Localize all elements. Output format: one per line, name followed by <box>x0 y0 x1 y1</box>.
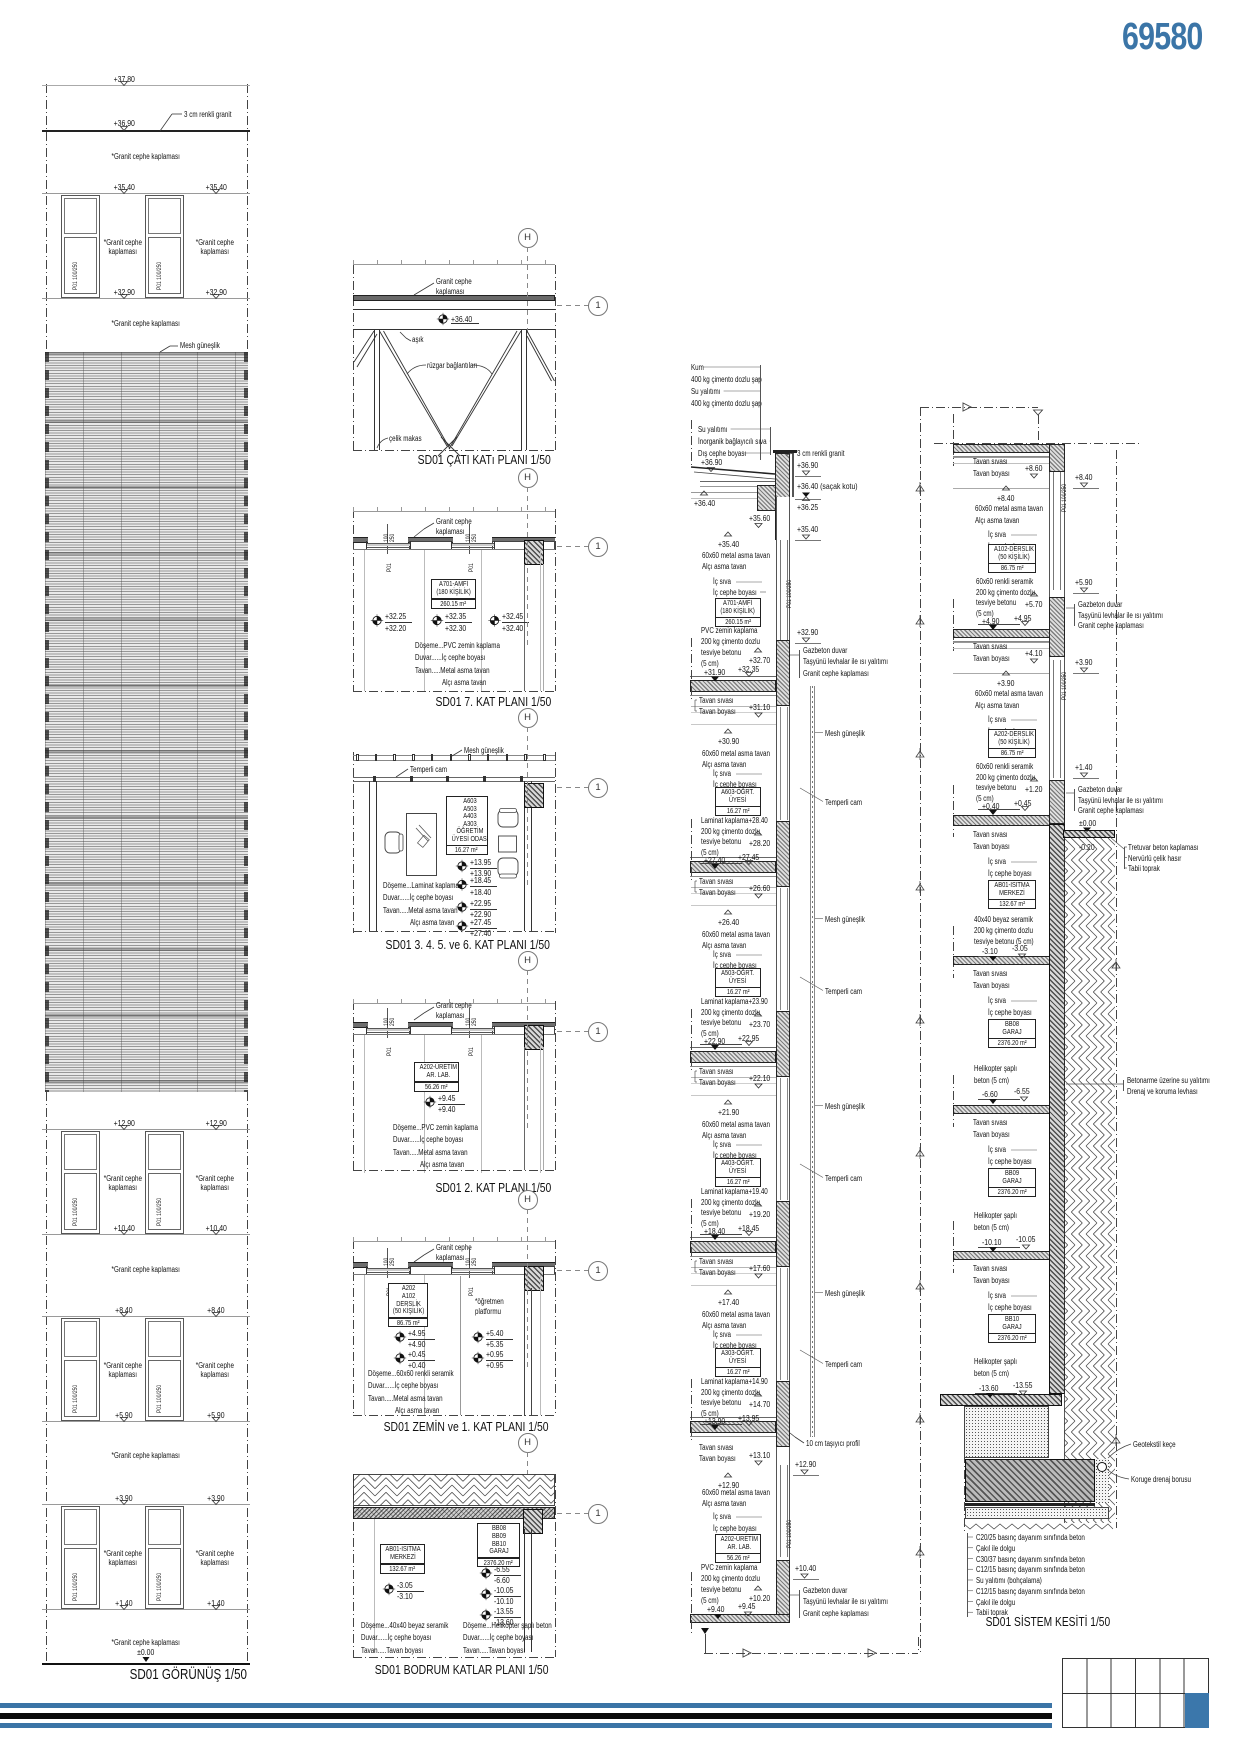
drain gravel stipple <box>1095 1459 1109 1503</box>
window P01 100/250 (elevation) <box>61 195 100 298</box>
spot elevation symbol <box>480 1609 492 1621</box>
elevation level line +10.40 <box>42 1234 250 1235</box>
window P01 100/250 (elevation) <box>145 195 184 298</box>
room label box AB01-ISITMA <box>988 880 1036 900</box>
parapet block hatched <box>775 453 790 540</box>
granite cap on parapet <box>773 450 797 453</box>
plan exterior wall with granite strips <box>353 1022 368 1028</box>
parapet granite cap line +36.90 <box>42 130 250 132</box>
window glazing in plan <box>366 542 410 545</box>
window glazing in plan <box>366 1027 410 1030</box>
spot level +0.95/+0.95 <box>486 1349 508 1359</box>
spot elevation symbol <box>456 920 468 932</box>
benchmark marker <box>916 482 924 494</box>
top bracket with arrow <box>920 407 1038 408</box>
structural column (hatched) <box>524 1025 544 1050</box>
finish notes <box>383 881 478 890</box>
foundation layer list <box>976 1533 1112 1542</box>
room label box A202 <box>388 1283 428 1318</box>
column edge lines <box>523 1047 526 1170</box>
basement wall (hatched continuous) <box>1049 824 1065 1394</box>
gazbeton labels right bottom <box>803 1586 858 1595</box>
right boundary of wall section <box>920 407 921 1653</box>
granite cladding note between windows <box>93 1549 153 1558</box>
spot level +27.45/+27.40 <box>470 917 497 927</box>
elevation left boundary line <box>46 84 47 1664</box>
spot elevation symbol <box>394 1352 406 1364</box>
sidewalk hatched strip <box>1063 830 1115 838</box>
room label box BB08 <box>477 1523 520 1558</box>
spot elevation symbol <box>431 614 443 626</box>
structural column (hatched) <box>524 540 544 565</box>
spot elevation symbol <box>472 1352 484 1364</box>
right ground labels <box>1128 843 1216 852</box>
plan boundary lines <box>353 752 354 933</box>
parapet finish labels <box>698 425 735 434</box>
system section module at 629 <box>953 641 1049 644</box>
interior finish labels <box>713 577 736 586</box>
system section module at 444 <box>953 456 1049 459</box>
window P01 100/250 (elevation) <box>61 1318 100 1421</box>
granite cladding note <box>0 152 296 161</box>
granite cladding note between windows <box>93 238 153 247</box>
mesh/glass labels right side <box>825 729 875 738</box>
foundation big block hatched <box>965 1459 1095 1502</box>
steel truss verticals <box>374 330 375 450</box>
benchmark marker <box>916 1413 924 1425</box>
bottom floor module (A202) <box>699 1443 742 1452</box>
label ruzgar baglantilari <box>427 361 490 370</box>
bottom slab of wall section <box>690 1614 790 1623</box>
benchmark marker <box>916 1280 924 1292</box>
benchmark marker <box>916 748 924 760</box>
plan title SD01 2. KAT PLANI 1/50 <box>313 1180 673 1195</box>
gazbeton labels right <box>803 646 858 655</box>
elevation ground line <box>42 1663 250 1665</box>
floor slabs (system section) <box>953 444 1050 453</box>
section floor module at slab 1241 <box>691 1266 776 1269</box>
left level +36.40 <box>694 498 721 508</box>
beam at +35.60 <box>757 485 776 511</box>
plan bottom boundary <box>353 1170 555 1171</box>
room label box A701-AMFİ <box>715 598 761 618</box>
room label box A202-ÜRETİM <box>414 1062 459 1082</box>
basement module at 1105 <box>973 1118 1016 1127</box>
label 10 cm tasiyici profil <box>806 1439 873 1448</box>
benchmark marker <box>1112 1434 1120 1446</box>
reference bubble 1 <box>588 296 608 316</box>
soil level -0.20 <box>1079 842 1099 852</box>
spot elevation symbol <box>394 1331 406 1343</box>
plan title SD01 ZEMİN ve 1. KAT PLANI 1/50 <box>286 1419 646 1434</box>
tempered glass line <box>353 776 555 779</box>
mesh darker bands <box>45 352 248 355</box>
dimension marks 100/250 with P01 <box>386 1248 389 1278</box>
finish notes <box>368 1369 475 1378</box>
plan bottom boundary <box>353 931 555 932</box>
label asik <box>412 335 426 344</box>
reference bubble H <box>518 1433 538 1453</box>
mesh edge dashes <box>45 352 49 1092</box>
footer bars blue black blue <box>0 1703 1052 1708</box>
benchmark marker <box>1112 959 1120 971</box>
window P01 100/250 (elevation) <box>145 1131 184 1234</box>
room label box A202-ÜRETİM <box>715 1534 761 1554</box>
right label 3 cm renkli granit <box>797 449 856 458</box>
footer grid blue cell <box>1185 1693 1210 1729</box>
left boundary marks <box>953 414 954 466</box>
window P01 system section floor1 <box>1061 484 1068 512</box>
right level +32.90 <box>797 627 824 637</box>
spot level +13.95/+13.90 <box>470 857 497 867</box>
elevation right boundary line <box>247 84 248 1664</box>
spot elevation symbol <box>456 901 468 913</box>
wall strip system section above ground <box>1049 444 1065 824</box>
plan title SD01 3. 4. 5. ve 6. KAT PLANI 1/50 <box>288 937 648 952</box>
finish notes <box>393 1123 499 1132</box>
mesh sunscreen leader <box>180 341 230 350</box>
elevation level line +37.80 <box>42 85 250 86</box>
window glazing in plan <box>366 1267 410 1270</box>
interior walls below <box>524 1529 525 1652</box>
room label box BB09 <box>988 1168 1036 1188</box>
gazbeton labels <box>1078 785 1133 794</box>
leader granit cephe kaplamasi <box>436 1001 481 1010</box>
finish notes <box>415 641 521 650</box>
spot elevation symbol <box>383 1583 395 1595</box>
ceiling labels <box>702 551 787 560</box>
spot elevation symbol <box>424 1096 436 1108</box>
window P01 100/250 (elevation) <box>61 1131 100 1234</box>
benchmark marker <box>916 1147 924 1159</box>
reference bubble H <box>518 468 538 488</box>
wall strip (section) <box>776 497 790 1617</box>
foundation lean concrete lower <box>965 1507 1109 1519</box>
structural column (hatched) <box>524 783 544 808</box>
roof slab sloped lines <box>700 480 775 483</box>
dimension marks 100/250 with P01 <box>386 1008 389 1038</box>
desk (plan furniture) <box>406 813 437 876</box>
spot level +32.35/+32.30 <box>445 611 472 621</box>
facade top tick strip <box>353 1240 555 1243</box>
label celik makas <box>389 434 430 443</box>
spot level -10.05/-10.10 <box>494 1585 518 1595</box>
wall inner face line <box>353 548 555 551</box>
window P01 100/250 (elevation) <box>145 1506 184 1609</box>
plan exterior wall with granite strips <box>353 1262 368 1268</box>
room label box A503-ÖĞRT. <box>715 968 761 988</box>
reference bubble 1 <box>588 778 608 798</box>
level +35.60 <box>749 513 776 523</box>
level +36.40 with spot <box>451 314 478 324</box>
bottom foundation slab <box>940 1394 1062 1406</box>
bottom bracket of wall section <box>704 1634 707 1653</box>
finish notes <box>463 1621 574 1630</box>
granite cladding note <box>0 1638 296 1647</box>
room label box AB01-ISITMA <box>380 1544 425 1564</box>
roof build-up labels <box>691 363 707 372</box>
levels +31.90 +32.35 <box>704 667 731 677</box>
reference bubble 1 <box>588 1504 608 1524</box>
benchmark marker <box>916 1546 924 1558</box>
footer grid table <box>1062 1658 1209 1728</box>
leader granit cephe kaplamasi <box>436 1243 481 1252</box>
basement module at 1251 <box>973 1264 1016 1273</box>
room label box BB08 <box>988 1019 1036 1039</box>
foundation: lean concrete stipple upper <box>964 1406 1049 1458</box>
right level +36.25 <box>797 502 824 512</box>
leader 3 cm renkli granit <box>184 110 243 119</box>
room label box A303-ÖĞRT. <box>715 1348 761 1368</box>
facade top tick strip <box>353 510 555 513</box>
soil herringbone (system section) <box>1064 838 1115 1523</box>
granite cladding note <box>0 1451 296 1460</box>
interior projection lines <box>363 1275 366 1415</box>
spot elevation symbol <box>472 1331 484 1343</box>
platform divider line <box>459 1276 462 1415</box>
elevation level line +1.40 <box>42 1609 250 1610</box>
floor slabs hatched (section) <box>690 680 776 692</box>
top boundary <box>934 443 1141 444</box>
label temperli cam <box>410 765 456 774</box>
title SD01 SISTEM KESITI 1/50 <box>898 1614 1198 1629</box>
ground level +-0.00 <box>1079 818 1100 828</box>
reference bubble H <box>518 1190 538 1210</box>
spot elevation symbol <box>480 1567 492 1579</box>
room label box A603 <box>446 796 488 846</box>
mesh screen line (section) <box>809 686 812 1437</box>
elevation level line +12.90 <box>42 1129 250 1130</box>
elevation level line +3.90 <box>42 1504 250 1505</box>
structural column (hatched) <box>524 1266 544 1291</box>
mesh sunscreen strip in plan <box>353 754 555 757</box>
left level +35.40 <box>718 539 745 549</box>
reference bubble H <box>518 951 538 971</box>
granite roof strip <box>353 295 555 301</box>
plan title SD01 ÇATI KATı PLANI 1/50 <box>304 452 664 467</box>
truss bottom boundary <box>353 450 555 451</box>
spot level +32.45/+32.40 <box>502 611 529 621</box>
spot elevation symbol <box>456 860 468 872</box>
spot elevation symbol <box>437 313 449 325</box>
granite face strip right of parapet <box>792 453 794 497</box>
foundation waterproof line <box>965 1503 1095 1506</box>
spot level +5.40/+5.35 <box>486 1328 508 1338</box>
structural column (hatched) <box>523 1509 543 1534</box>
section floor module at slab 680 <box>691 705 776 708</box>
room label box A701-AMFİ <box>431 579 476 599</box>
foundation left boundary <box>964 1406 965 1531</box>
label mesh guneslik <box>464 746 514 755</box>
room label box A403-ÖĞRT. <box>715 1158 761 1178</box>
leader granit cephe kaplamasi <box>436 517 481 526</box>
wall below column block <box>524 1288 525 1416</box>
left level +36.90 <box>701 457 728 467</box>
mesh sunscreen hatched area <box>45 352 248 1092</box>
plan bottom boundary <box>353 1657 555 1658</box>
reference bubble 1 <box>588 1261 608 1281</box>
spot elevation symbol <box>371 614 383 626</box>
spot level +4.95/+4.90 <box>408 1328 430 1338</box>
finish notes <box>361 1621 470 1630</box>
title SD01 GORUNUS 1/50 <box>38 1667 338 1684</box>
granite cladding note <box>0 1265 296 1274</box>
elevation level line +32.90 <box>42 298 250 299</box>
granite cladding note between windows <box>93 1174 153 1183</box>
leader granit cephe kaplamasi <box>436 277 481 286</box>
plan title SD01 BODRUM KATLAR PLANI 1/50 <box>282 1662 642 1677</box>
reference bubble 1 <box>588 537 608 557</box>
spot level -13.55/-13.60 <box>494 1606 518 1616</box>
right labels betonarme su yalitimi <box>1127 1076 1231 1085</box>
dimension marks 100/250 with P01 <box>386 524 389 554</box>
ground slab <box>953 815 1050 826</box>
level +32.70 <box>749 655 776 665</box>
window P01 system section floor2 <box>1061 672 1068 700</box>
right level +36.90 <box>797 460 824 470</box>
window P01 in wall top floor <box>786 580 793 608</box>
right level +35.40 <box>797 524 824 534</box>
room label box A603-ÖĞRT. <box>715 787 761 807</box>
gazbeton labels <box>1078 600 1133 609</box>
right boundary <box>1116 450 1117 1528</box>
benchmark marker <box>916 1014 924 1026</box>
section floor module at slab 861 <box>691 886 776 889</box>
plan boundary lines <box>353 1240 354 1415</box>
elevation level line +8.40 <box>42 1316 250 1317</box>
ground level +-0.00 <box>0 1647 296 1657</box>
basement module at 815 <box>973 830 1016 839</box>
section floor module at slab 1051 <box>691 1076 776 1079</box>
plan boundary lines <box>353 1474 354 1657</box>
label koruge drenaj borusu <box>1131 1475 1206 1484</box>
window P01 in wall bottom floor <box>786 1520 793 1548</box>
benchmark marker <box>916 615 924 627</box>
basement wall band (hatched) <box>353 1507 555 1519</box>
facade top tick strip <box>353 1002 555 1005</box>
left boundary marks of wall section <box>691 638 692 702</box>
spot level +18.45/+18.40 <box>470 875 497 885</box>
herringbone soil band <box>353 1474 555 1506</box>
spot level +0.45/+0.40 <box>408 1349 430 1359</box>
plan boundary lines <box>353 265 354 450</box>
right level +36.40 sacak <box>797 481 873 491</box>
elevation level line +5.90 <box>42 1421 250 1422</box>
granite cladding note between windows <box>93 1361 153 1370</box>
plan bottom boundary <box>353 1415 555 1416</box>
spot elevation symbol <box>480 1588 492 1600</box>
plan boundary lines <box>353 509 354 691</box>
facade top tick strip <box>353 263 555 266</box>
interior walls (double lines) <box>369 781 370 931</box>
plan title SD01 7. KAT PLANI 1/50 <box>313 694 673 709</box>
window P01 100/250 (elevation) <box>61 1506 100 1609</box>
label geotekstil kece <box>1133 1440 1186 1449</box>
sheet number 69580 <box>1122 15 1223 60</box>
plan bottom boundary <box>353 691 555 692</box>
curtain wall lines mid floors <box>779 707 782 820</box>
interior projection lines <box>363 550 366 691</box>
spot level +22.95/+22.90 <box>470 898 497 908</box>
floor build-up labels <box>701 626 772 635</box>
spot elevation symbol <box>456 878 468 890</box>
room label box A102-DERSLİK <box>988 544 1036 564</box>
granite cladding note <box>0 319 296 328</box>
spot level -6.55/-6.60 <box>494 1564 514 1574</box>
interior projection lines <box>363 1035 366 1173</box>
spot level +32.25/+32.20 <box>385 611 412 621</box>
reference bubble H <box>518 708 538 728</box>
wall inner face line <box>353 1033 555 1036</box>
spot level -3.05/-3.10 <box>397 1580 417 1590</box>
elevation level line +35.40 <box>42 193 250 194</box>
roof labels bracket line <box>759 365 762 460</box>
window P01 100/250 (elevation) <box>145 1318 184 1421</box>
basement module at 956 <box>973 969 1016 978</box>
reference bubble 1 <box>588 1022 608 1042</box>
spot level +9.45/+9.40 <box>438 1093 460 1103</box>
room label box A202-DERSLİK <box>988 729 1036 749</box>
plan boundary lines <box>353 1001 354 1173</box>
plan exterior wall with granite strips <box>353 537 368 543</box>
ogretmen platformu note <box>475 1297 511 1306</box>
benchmark marker <box>916 881 924 893</box>
spot elevation symbol <box>488 614 500 626</box>
reference bubble H <box>518 228 538 248</box>
column edge lines <box>523 564 526 691</box>
wall inner face line <box>353 1273 555 1276</box>
room label box BB10 <box>988 1314 1036 1334</box>
truss top chord <box>353 329 555 330</box>
